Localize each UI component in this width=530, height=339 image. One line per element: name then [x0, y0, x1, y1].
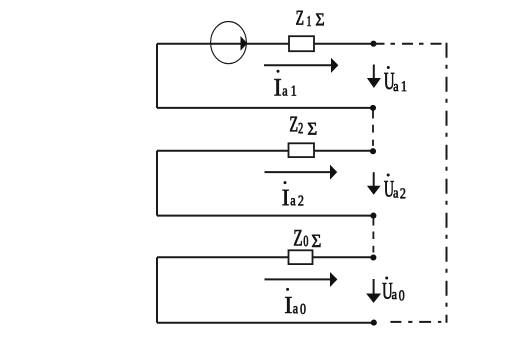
label Ia2 dot [284, 181, 287, 184]
label Ia1 [274, 79, 296, 96]
wire loop2 left [156, 151, 158, 216]
wire dashed link N2-A0 [372, 218, 374, 252]
node A0 [370, 254, 376, 260]
wire loop2 bottom [157, 215, 373, 217]
voltage arrow Ua1 [367, 65, 381, 89]
label Ia1 dot [277, 70, 280, 73]
label Ua0 [383, 283, 405, 300]
label Ua2 dot [387, 174, 390, 177]
current arrow Ia1 [264, 58, 338, 73]
label Ia0 dot [286, 288, 289, 291]
label Z0 sigma [294, 230, 320, 247]
label Ua0 dot [385, 277, 388, 280]
label Z1 sigma [296, 11, 324, 26]
label Ia2 [283, 190, 304, 206]
wire loop2 top [157, 150, 373, 152]
label Z2 sigma [290, 117, 316, 135]
impedance Z1 box [289, 36, 314, 51]
wire loop3 left [156, 257, 158, 322]
wire loop1 top [157, 43, 374, 45]
label Ua1 [384, 73, 406, 91]
wire dash-dot bottom right [390, 321, 441, 323]
wire dash-dot right vertical [446, 43, 448, 323]
label Ia0 [285, 297, 305, 314]
node N2 [370, 213, 376, 219]
wire loop3 bottom [157, 322, 374, 324]
source G1 arrowhead [241, 36, 248, 51]
impedance Z2 box [289, 143, 315, 157]
voltage arrow Ua0 [366, 279, 381, 303]
node N0 [371, 320, 377, 326]
voltage arrow Ua2 [367, 172, 381, 195]
current arrow Ia2 [265, 165, 338, 180]
node A2 [370, 148, 376, 154]
wire loop1 left [156, 44, 158, 108]
label Ua2 [384, 181, 405, 198]
impedance Z0 box [289, 250, 313, 264]
wire dashed link N1-A2 [372, 111, 374, 146]
node A1 [370, 41, 376, 47]
node N1 [370, 105, 376, 111]
wire dash-dot top right [374, 43, 443, 45]
wire loop3 top [157, 256, 373, 258]
wire loop1 bottom [157, 107, 373, 109]
source G1 circle [211, 21, 247, 63]
label Ua1 dot [387, 66, 390, 69]
current arrow Ia0 [265, 272, 338, 287]
